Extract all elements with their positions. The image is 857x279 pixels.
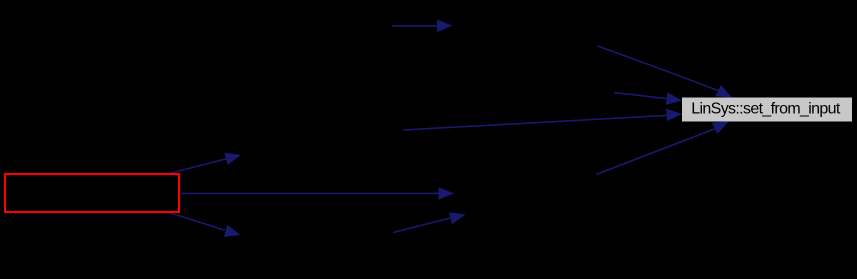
svg-text:LinSys::set_from_input: LinSys::set_from_input bbox=[691, 101, 841, 118]
